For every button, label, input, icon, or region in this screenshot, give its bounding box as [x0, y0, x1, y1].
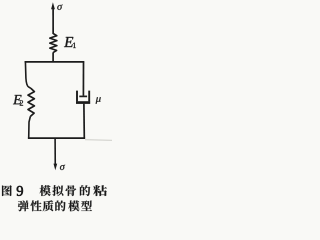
arrowhead of top stress arrow (points up) — [51, 2, 55, 9]
caption line2 char 性 — [30, 200, 41, 211]
arrowhead of bottom stress arrow (points down) — [54, 164, 58, 171]
figure: viscoelastic bone model (spring E1 in series with parallel spring E2 + dashpot mu) — [0, 0, 112, 222]
wire: left branch upper segment — [25, 61, 30, 88]
caption line1 char 拟 — [52, 185, 63, 196]
wire: bottom stress arrow shaft — [54, 138, 56, 164]
spring E2 (zigzag) — [28, 88, 34, 116]
wire: top lead from sigma arrow down to spring E1 — [52, 6, 54, 34]
label E2 subscript 2 — [20, 100, 23, 105]
caption line1 char 模 — [40, 185, 51, 196]
wire: rod below dashpot cup — [83, 104, 85, 139]
label sigma (bottom stress) — [60, 165, 65, 170]
wire: spring E1 lead to top bar — [52, 52, 54, 62]
caption line2 char 型 — [81, 201, 92, 211]
caption line1 char 粘 — [93, 185, 107, 196]
caption line2 char 质 — [43, 200, 54, 211]
wire: left branch lower segment — [29, 116, 31, 138]
caption line2 char 模 — [68, 200, 79, 211]
caption line1 char 的 — [80, 185, 90, 196]
caption line1 char 骨 — [66, 185, 77, 196]
dashpot cup (cylinder) — [77, 91, 89, 102]
dashpot piston plate — [79, 95, 87, 97]
label sigma (top stress) — [57, 4, 62, 9]
caption line2 char 的 — [55, 200, 65, 211]
wire: right branch rod into dashpot — [82, 61, 84, 95]
spring E1 (zigzag) — [50, 34, 57, 53]
top horizontal bar of parallel branch — [25, 61, 85, 63]
label E2 (E) — [13, 95, 22, 104]
label E1 subscript 1 — [73, 43, 76, 48]
bottom horizontal bar joining branches — [28, 137, 85, 139]
label mu (viscosity) — [96, 97, 101, 103]
caption line1 digit 9 — [17, 186, 23, 196]
label E1 (E) — [64, 37, 73, 47]
caption line2 char 弹 — [18, 200, 29, 211]
caption line1 char 图 — [2, 185, 12, 196]
faint scan artifact line right of bottom bar — [85, 139, 112, 142]
